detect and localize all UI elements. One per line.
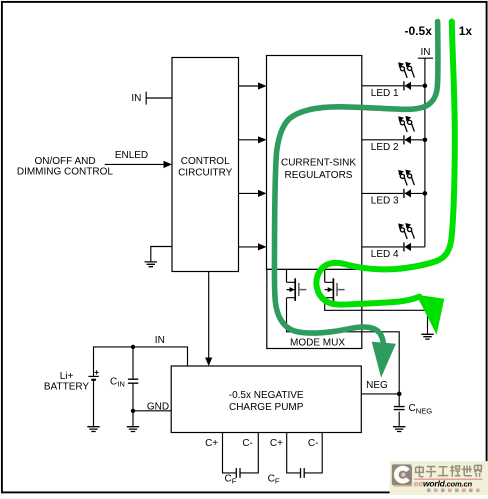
- svg-text:CHARGE PUMP: CHARGE PUMP: [229, 402, 304, 413]
- svg-text:NEG: NEG: [366, 380, 388, 391]
- svg-text:BATTERY: BATTERY: [44, 382, 90, 393]
- svg-text:C-: C-: [242, 438, 253, 449]
- svg-text:CIRCUITRY: CIRCUITRY: [178, 168, 233, 179]
- svg-text:1x: 1x: [459, 24, 473, 38]
- svg-text:Li+: Li+: [60, 371, 74, 382]
- svg-text:IN: IN: [421, 47, 431, 58]
- svg-text:IN: IN: [155, 335, 165, 346]
- svg-text:LED 3: LED 3: [371, 196, 399, 207]
- svg-text:LED 2: LED 2: [371, 142, 399, 153]
- svg-text:IN: IN: [131, 93, 141, 104]
- svg-text:REGULATORS: REGULATORS: [285, 170, 353, 181]
- svg-text:-0.5x NEGATIVE: -0.5x NEGATIVE: [229, 390, 304, 401]
- svg-text:C-: C-: [308, 438, 319, 449]
- svg-text:ON/OFF AND: ON/OFF AND: [34, 156, 95, 167]
- svg-text:CURRENT-SINK: CURRENT-SINK: [281, 158, 356, 169]
- svg-text:C+: C+: [270, 438, 283, 449]
- svg-text:C+: C+: [205, 438, 218, 449]
- svg-text:-0.5x: -0.5x: [405, 24, 433, 38]
- svg-text:MODE MUX: MODE MUX: [290, 338, 345, 349]
- svg-text:GND: GND: [147, 401, 169, 412]
- svg-text:CONTROL: CONTROL: [181, 156, 230, 167]
- svg-text:DIMMING CONTROL: DIMMING CONTROL: [17, 166, 114, 177]
- svg-text:LED 4: LED 4: [371, 249, 399, 260]
- svg-text:LED 1: LED 1: [371, 88, 399, 99]
- svg-text:ENLED: ENLED: [115, 150, 148, 161]
- svg-text:eeworld.com.cn: eeworld.com.cn: [414, 478, 473, 488]
